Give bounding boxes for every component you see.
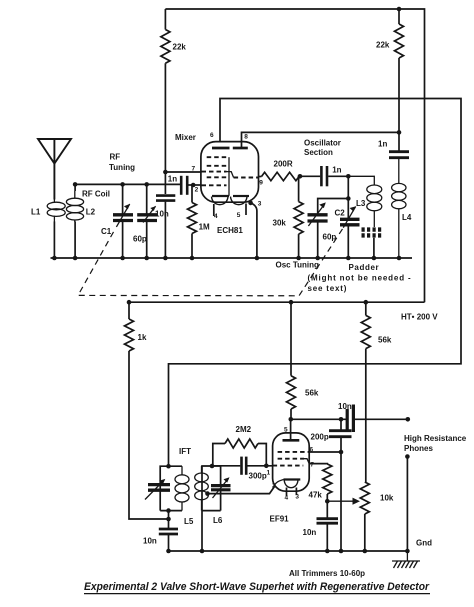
node grid wire left [73, 182, 78, 187]
node trimmer ground [315, 256, 320, 261]
svg-text:60p: 60p [323, 233, 337, 242]
resistor R2 22k (osc anode load) [395, 9, 404, 151]
wire top HT feed [165, 9, 424, 302]
capacitor IFT trimmer primary [145, 479, 170, 500]
svg-text:(Might not be needed -: (Might not be needed - [308, 274, 412, 283]
node IFT bottom [166, 508, 171, 513]
node IFT top [166, 464, 171, 469]
svg-text:22k: 22k [376, 41, 390, 50]
grid triode dashes (pin9) [234, 177, 259, 179]
capacitor C 10n (screen decoupling) [156, 196, 175, 258]
svg-text:IFT: IFT [179, 447, 191, 456]
svg-text:HT• 200 V: HT• 200 V [401, 313, 438, 322]
grid g3 dashes EF91 [278, 458, 304, 460]
wire IFT primary bottom [160, 510, 182, 512]
resistor R 56k bleeder [361, 302, 370, 482]
svg-text:300p: 300p [249, 472, 267, 481]
label Oscillator Section [304, 139, 341, 158]
svg-text:10n: 10n [143, 537, 157, 546]
grid g3 dashes [207, 165, 227, 167]
node cathode tap [205, 491, 210, 496]
svg-text:2M2: 2M2 [236, 425, 252, 434]
wire IFT secondary bottom [202, 510, 221, 512]
antenna [38, 139, 71, 200]
pin 4 stub [213, 204, 215, 216]
resistor R1 22k (mixer screen feed) [161, 9, 170, 194]
wire IFT primary top [160, 466, 182, 510]
label might-not-be-needed [308, 274, 412, 294]
node L1 ground [52, 256, 57, 261]
label RF Tuning [109, 153, 135, 173]
svg-text:22k: 22k [173, 43, 187, 52]
svg-text:4: 4 [285, 495, 289, 502]
capacitor C 200p regen [329, 419, 352, 551]
node pin6 junction [339, 450, 344, 455]
resistor R 200R [259, 172, 301, 180]
svg-text:High Resistance: High Resistance [404, 434, 467, 443]
node 56k bleeder HT [364, 300, 369, 305]
node C2 top [346, 196, 351, 201]
svg-text:Tuning: Tuning [109, 163, 135, 172]
svg-text:L2: L2 [86, 208, 96, 217]
node osc grid [298, 174, 303, 179]
node pin8-22k junction [397, 130, 402, 135]
cathode triode bar [233, 195, 249, 197]
node 200p riser [339, 417, 344, 422]
heater bump right [231, 197, 248, 205]
node 10n ground [163, 256, 168, 261]
svg-text:10n: 10n [338, 402, 352, 411]
wire ground rail bottom [169, 550, 410, 552]
heater bump left [212, 197, 229, 205]
inductor L6 [195, 466, 209, 511]
wire L2 bottom [74, 222, 76, 259]
svg-text:200R: 200R [274, 160, 293, 169]
resistor R 1k [125, 302, 169, 519]
svg-text:5: 5 [284, 427, 288, 434]
valve U2 EF91 envelope [273, 433, 310, 491]
title [84, 581, 430, 594]
wire pin8 to osc load [242, 132, 400, 148]
label High Resistance Phones [404, 434, 467, 453]
node 47k bottom [325, 499, 330, 504]
capacitor C 10n screen [317, 501, 339, 551]
svg-text:L3: L3 [356, 199, 366, 208]
grid triode link [227, 172, 234, 178]
svg-text:Gnd: Gnd [416, 539, 432, 548]
svg-text:5: 5 [237, 212, 241, 219]
node mixer screen [163, 170, 168, 175]
cathode heptode bar [212, 195, 229, 197]
grid g1 dashes (pin2 row) [202, 184, 227, 186]
inductor L3 [348, 176, 382, 227]
node C1 ground [120, 256, 125, 261]
anode plate EF91 [283, 439, 300, 442]
svg-text:10n: 10n [303, 528, 317, 537]
node HT rail 56k2 [289, 300, 294, 305]
node 1M ground [190, 256, 195, 261]
svg-text:EF91: EF91 [270, 515, 290, 524]
wire ground rail mid [51, 257, 413, 259]
node pin3 [248, 201, 253, 206]
svg-text:C2: C2 [335, 209, 346, 218]
node 1k feed [166, 517, 171, 522]
node grid pin2 [191, 183, 196, 188]
svg-text:10n: 10n [155, 210, 169, 219]
svg-text:1M: 1M [199, 223, 210, 232]
node L2 ground [73, 256, 78, 261]
svg-text:C1: C1 [101, 227, 112, 236]
wire L6 to ground [201, 511, 203, 551]
capacitor C 1n (grid coupling) [181, 176, 201, 195]
svg-text:56k: 56k [378, 336, 392, 345]
node 10n screen ground [325, 549, 330, 554]
svg-text:1n: 1n [378, 140, 387, 149]
node C2 ground [346, 256, 351, 261]
svg-text:200p: 200p [311, 433, 329, 442]
inductor L1 [47, 199, 65, 222]
inductor L4 [392, 159, 406, 258]
wire RF tank top [75, 183, 181, 185]
node EF91 grid [264, 464, 269, 469]
svg-text:Mixer: Mixer [175, 133, 196, 142]
svg-text:10k: 10k [380, 494, 394, 503]
svg-text:1n: 1n [332, 166, 341, 175]
wire gang dashed [78, 228, 343, 296]
svg-text:60p: 60p [133, 235, 147, 244]
wire wiper arrow [327, 498, 360, 505]
node phones bottom [405, 454, 410, 459]
capacitor C 1n osc coupling [300, 166, 348, 186]
node 30k ground [296, 256, 301, 261]
node L6 ground [200, 549, 205, 554]
pin 5 stub [245, 204, 247, 216]
svg-text:6: 6 [210, 132, 214, 139]
grid g3 exit [304, 459, 309, 464]
capacitor IFT trimmer secondary [211, 466, 231, 511]
svg-text:Section: Section [304, 148, 333, 157]
svg-text:L5: L5 [184, 517, 194, 526]
svg-text:1n: 1n [168, 174, 177, 183]
svg-text:2: 2 [195, 187, 199, 194]
pin 4 stub EF91 [286, 488, 288, 497]
svg-text:Padder: Padder [349, 263, 380, 272]
grid strap internal [228, 157, 230, 196]
svg-text:RF Coil: RF Coil [82, 190, 110, 199]
node phones top [406, 417, 411, 422]
wire anode out [291, 418, 346, 420]
anode triode plate [233, 147, 248, 150]
valve U1 ECH81 envelope [201, 142, 259, 203]
svg-text:7: 7 [310, 462, 314, 469]
node 10k ground [363, 549, 368, 554]
wire IFT bottom to 10n [168, 511, 170, 528]
svg-text:Experimental 2 Valve Short-Wav: Experimental 2 Valve Short-Wave Superhet… [84, 581, 430, 593]
capacitor C 10n IFT decoupling [159, 529, 178, 551]
resistor R 56k anode load [287, 302, 296, 419]
capacitor C2 variable [340, 199, 360, 259]
node grid riser [210, 464, 215, 469]
wire pin5 anode [290, 419, 292, 440]
wire mixer anode detour box [169, 99, 462, 467]
grid g2 dashes EF91 [278, 451, 310, 453]
node top-right junction [397, 7, 402, 12]
capacitor C 10n output [347, 405, 408, 433]
wire pin6 to 200p [309, 451, 341, 453]
svg-text:1: 1 [267, 470, 271, 477]
svg-text:see text): see text) [308, 284, 348, 293]
node padder ground [372, 256, 377, 261]
pin 3 stub EF91 [295, 488, 297, 496]
resistor R 2M2 grid leak [213, 439, 266, 466]
wire IFT secondary top [202, 466, 221, 511]
potentiometer R 10k regen [360, 482, 369, 551]
cathode exit EF91 [275, 480, 284, 487]
capacitor osc trimmer 60p [308, 202, 328, 258]
svg-text:L1: L1 [31, 208, 41, 217]
svg-text:ECH81: ECH81 [217, 226, 243, 235]
node C1 top [120, 182, 125, 187]
svg-text:Osc Tuning: Osc Tuning [276, 261, 320, 270]
svg-text:All Trimmers 10-60p: All Trimmers 10-60p [289, 569, 365, 578]
heater bump EF91 [284, 480, 298, 488]
grid g1 dashes EF91 [273, 465, 304, 467]
node 60p ground [144, 256, 149, 261]
svg-text:9: 9 [259, 180, 263, 187]
wire screen to pin7 [165, 171, 201, 173]
wire phones return [406, 457, 408, 552]
cathode bar EF91 [284, 478, 301, 480]
node osc tank top [346, 174, 351, 179]
svg-text:47k: 47k [309, 491, 323, 500]
wire tank top to C2 [347, 176, 349, 198]
wire pin3 cathode to ground [251, 203, 257, 258]
svg-text:1k: 1k [138, 333, 147, 342]
capacitor C 1n osc anode [389, 152, 409, 158]
node L4 ground [397, 256, 402, 261]
svg-text:3: 3 [295, 494, 299, 501]
svg-text:Phones: Phones [404, 444, 433, 453]
svg-text:RF: RF [110, 153, 121, 162]
node anode junction [289, 417, 294, 422]
grid g? row4 dashes [207, 176, 227, 178]
ground symbol [392, 551, 420, 568]
svg-text:8: 8 [244, 134, 248, 141]
svg-text:3: 3 [258, 201, 262, 208]
capacitor RF trimmer 60p [137, 184, 157, 258]
inductor L2 [66, 191, 83, 222]
svg-text:Oscillator: Oscillator [304, 139, 341, 148]
node phones ground [405, 549, 410, 554]
wire L1 bottom [53, 222, 55, 259]
node 200p ground [339, 549, 344, 554]
svg-text:7: 7 [192, 166, 196, 173]
wire L2 top [74, 184, 76, 191]
node pin3 ground [255, 256, 260, 261]
resistor R 1M grid leak [188, 185, 197, 258]
capacitor C1 variable [113, 184, 133, 258]
capacitor C 300p grid [212, 457, 273, 475]
inductor L5 [175, 466, 189, 510]
svg-text:4: 4 [214, 213, 218, 220]
anode heptode plate [212, 147, 230, 150]
svg-text:L4: L4 [402, 213, 412, 222]
svg-text:56k: 56k [305, 389, 319, 398]
svg-text:L6: L6 [213, 516, 223, 525]
resistor R 30k [294, 176, 303, 258]
grid g4 dashes [207, 156, 227, 158]
capacitor padder (dotted) [362, 230, 384, 258]
grid g2 dashes (pin7 row) [202, 171, 227, 173]
node 10n ground [166, 549, 171, 554]
wire HT rail 200V [129, 301, 425, 303]
node 60p top [144, 182, 149, 187]
svg-text:30k: 30k [273, 219, 287, 228]
wire cathode tap [208, 487, 275, 494]
wire C2 node to trimmer [318, 199, 349, 214]
resistor R 47k screen [309, 464, 332, 502]
node 1k HT [127, 300, 132, 305]
